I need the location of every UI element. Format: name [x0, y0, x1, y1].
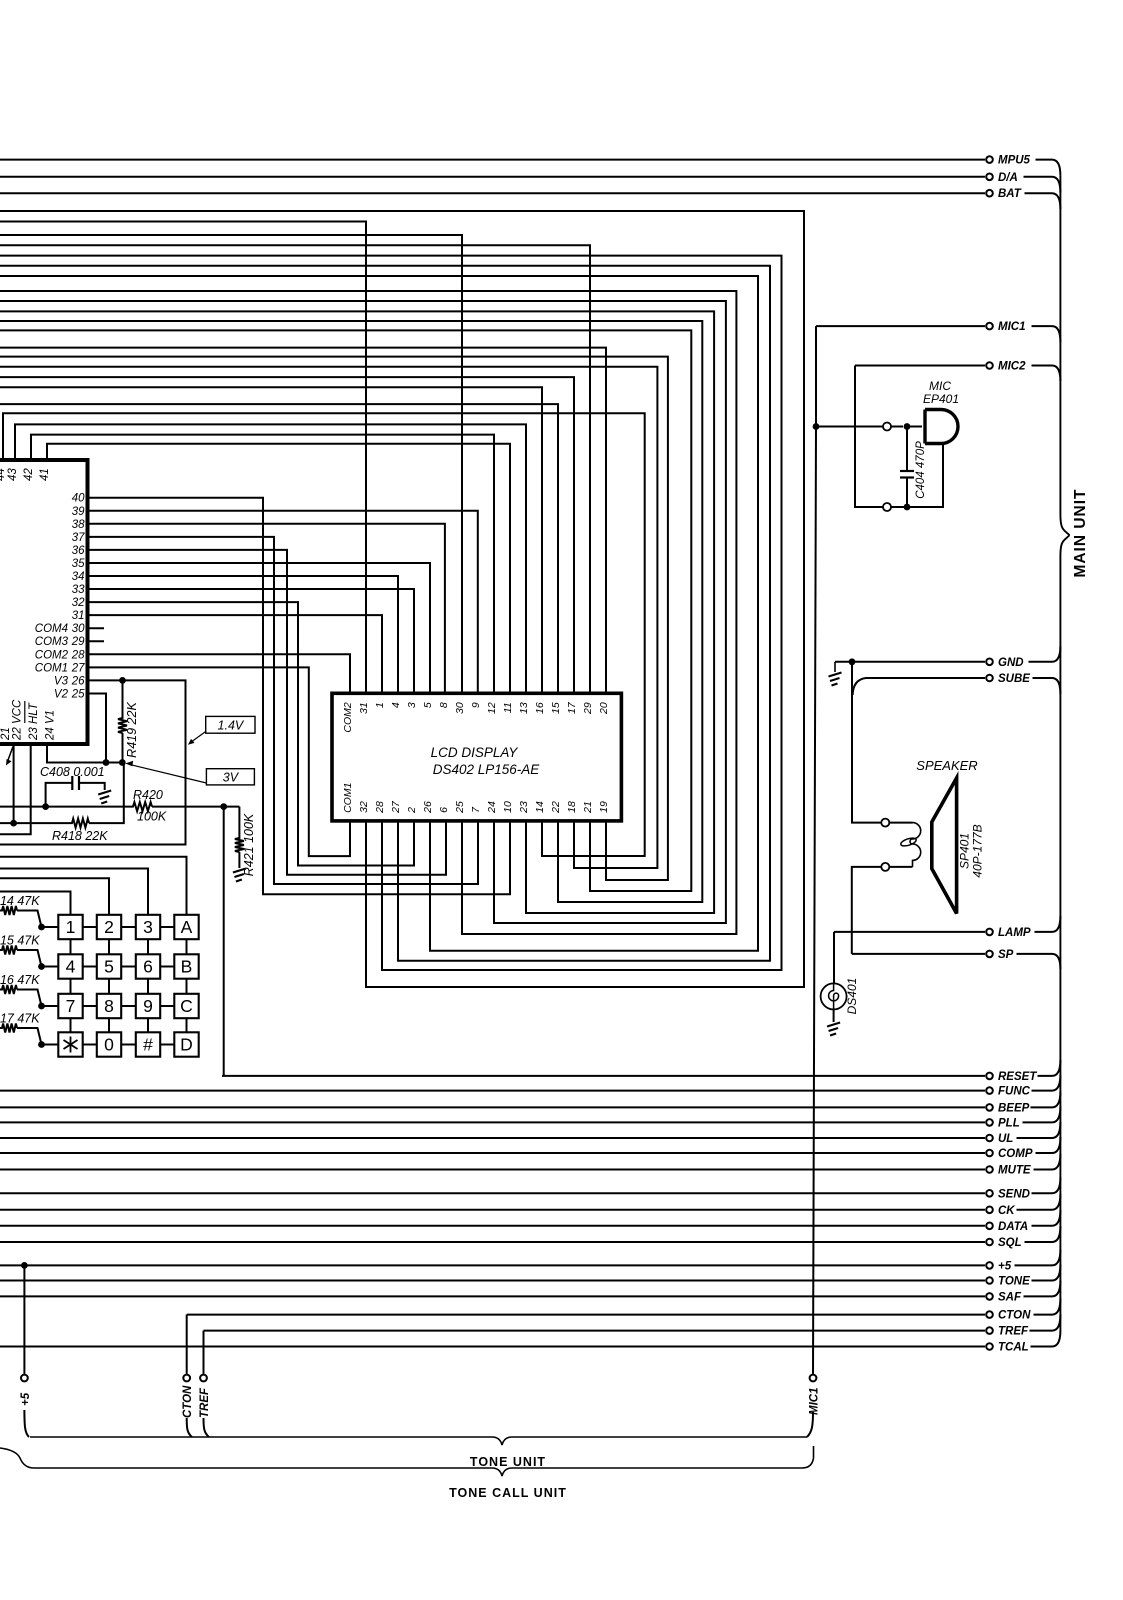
wire TONE to main-unit bus	[1032, 1265, 1061, 1281]
wire IC pin 34 to LCD top pin 4	[88, 576, 399, 693]
wire from left edge y=221.5 to LCD top pin col x=366	[0, 222, 366, 694]
wire DATA row	[0, 1225, 985, 1227]
svg-text:10: 10	[502, 801, 514, 813]
wire CTON row	[187, 1314, 985, 1316]
junction +5 row	[21, 1262, 28, 1269]
resistor R414 47K keypad row 1	[0, 906, 42, 927]
ground symbol GND row	[829, 673, 842, 686]
terminal GND	[986, 657, 1023, 669]
key 7	[58, 994, 82, 1018]
terminal CK	[986, 1205, 1015, 1217]
svg-text:37: 37	[72, 532, 85, 544]
svg-text:6: 6	[438, 807, 450, 813]
svg-text:32: 32	[72, 597, 85, 609]
wire CK row	[0, 1209, 985, 1211]
wire key row 2 between col 3 and 4	[160, 966, 174, 968]
svg-text:RESET: RESET	[998, 1071, 1037, 1083]
key A	[174, 915, 198, 939]
wire D/A from page left	[0, 176, 985, 178]
wire MPU5 to main-unit bus	[1036, 160, 1061, 176]
wire mic bottom row up to MIC element	[891, 444, 943, 507]
resistor R421 100K vertical	[235, 807, 244, 868]
connector circle mic bottom	[883, 503, 891, 511]
wire CK to main-unit bus	[1017, 1194, 1061, 1210]
junction R419 bottom node	[119, 759, 126, 766]
svg-text:DATA: DATA	[998, 1221, 1028, 1233]
svg-text:20: 20	[598, 702, 610, 715]
wire key col 3 between row 3 and 4	[147, 1018, 149, 1032]
svg-text:44: 44	[0, 468, 7, 481]
svg-text:12: 12	[486, 702, 498, 714]
wire IC pin 27 wrap left under LCD to bottom pin COM1	[88, 667, 351, 856]
svg-text:SP401: SP401	[958, 833, 972, 869]
svg-text:R414 47K: R414 47K	[0, 894, 40, 908]
wire DS401 to ground	[833, 1009, 835, 1022]
wire keypad column 1 to page left	[0, 892, 71, 915]
connector TREF bottom	[199, 1375, 211, 1418]
svg-text:1: 1	[66, 917, 76, 937]
wire CTON down to connector	[186, 1315, 188, 1374]
wire from left edge y=245.3 to LCD top pin col x=590	[0, 245, 590, 693]
key 6	[136, 954, 160, 978]
svg-text:FUNC: FUNC	[998, 1086, 1031, 1098]
junction C404 bottom	[904, 504, 911, 511]
svg-text:3: 3	[143, 917, 153, 937]
wire from left edge y=276.0 wrapping right of LCD to bottom pin col x=430	[0, 276, 758, 951]
ground below DS401	[827, 1023, 840, 1036]
terminal SUBE	[986, 673, 1030, 685]
svg-text:TONE UNIT: TONE UNIT	[470, 1455, 546, 1469]
svg-text:SAF: SAF	[998, 1291, 1022, 1303]
wire from left edge y=291.0 wrapping right of LCD to bottom pin col x=462	[0, 291, 736, 934]
wire speaker top to coil	[890, 822, 913, 824]
wire from left edge y=377.1 to LCD top pin col x=574	[0, 377, 574, 693]
wire from left edge y=387.2 to LCD top pin col x=542	[0, 387, 542, 693]
svg-text:R420: R420	[133, 788, 163, 802]
wire keypad column 4 to page left	[0, 857, 187, 915]
svg-text:PLL: PLL	[998, 1117, 1020, 1129]
wire MIC1 vertical continues to bottom connector	[813, 427, 816, 1374]
svg-text:TREF: TREF	[199, 1387, 211, 1418]
resistor R419 22K	[118, 680, 127, 762]
wire D/A to main-unit bus	[1024, 177, 1061, 193]
junction keypad row 2	[38, 963, 45, 970]
wire from left edge y=366.8 wrapping right of LCD to bottom pin col x=574	[0, 367, 657, 868]
svg-text:3V: 3V	[223, 771, 240, 785]
wire +5 down to connector	[23, 1265, 25, 1374]
svg-text:14: 14	[534, 801, 546, 813]
svg-text:36: 36	[72, 545, 85, 557]
terminal BEEP	[986, 1102, 1029, 1114]
wire RESET row	[222, 1075, 985, 1077]
wire mic top row	[816, 426, 903, 428]
wire DATA to main-unit bus	[1032, 1210, 1061, 1226]
wire LAMP down to lamp DS401	[833, 932, 835, 984]
wire TCAL to main-unit bus	[1031, 1331, 1061, 1347]
connector MIC1 bottom	[809, 1375, 821, 1415]
terminal MIC2	[986, 361, 1026, 373]
svg-text:5: 5	[422, 702, 434, 708]
svg-text:R419 22K: R419 22K	[125, 702, 139, 758]
wire key row 2 between col 1 and 2	[83, 966, 97, 968]
wire key row 1 between col 3 and 4	[160, 926, 174, 928]
wire from left edge y=211.0 wrapping right of LCD to bottom pin col x=366	[0, 211, 804, 987]
key *	[58, 1032, 82, 1056]
wire IC pin 33 to LCD top pin 3	[88, 589, 415, 693]
connector circle mic top	[883, 423, 891, 431]
svg-text:MIC1: MIC1	[998, 321, 1025, 333]
svg-text:21: 21	[0, 727, 12, 741]
junction VCC/R418	[10, 820, 17, 827]
svg-text:SUBE: SUBE	[998, 673, 1030, 685]
svg-text:C: C	[180, 996, 193, 1016]
svg-text:R416 47K: R416 47K	[0, 973, 40, 987]
wire +5 row	[0, 1264, 985, 1266]
junction keypad row 1	[38, 924, 45, 931]
wire key col 3 between row 2 and 3	[147, 979, 149, 994]
wire R421 node down to RESET row	[223, 807, 225, 1076]
svg-text:40: 40	[72, 493, 85, 505]
ground at GND row	[834, 662, 836, 672]
svg-text:MIC: MIC	[929, 379, 951, 393]
svg-text:MPU5: MPU5	[998, 155, 1031, 167]
wire IC pin 41 to LCD top pin 11	[47, 444, 510, 694]
svg-text:24 V1: 24 V1	[45, 710, 57, 741]
wire BEEP row	[0, 1106, 985, 1108]
wire key row 3 between col 2 and 3	[121, 1005, 136, 1007]
wire keypad row 3 to first key	[42, 1005, 59, 1007]
terminal SQL	[986, 1237, 1021, 1249]
svg-text:100K: 100K	[137, 810, 167, 824]
svg-text:LCD DISPLAY: LCD DISPLAY	[431, 745, 519, 760]
wire FUNC to main-unit bus	[1032, 1075, 1061, 1091]
wire SP row	[852, 953, 985, 955]
svg-text:SEND: SEND	[998, 1188, 1030, 1200]
svg-text:26: 26	[422, 801, 434, 814]
svg-text:22: 22	[550, 801, 562, 814]
wire MIC1 tail into tone unit bracket	[807, 1412, 813, 1437]
wire from left edge y=330.4 wrapping right of LCD to bottom pin col x=590	[0, 330, 691, 891]
wire IC pin 37 wrap left under LCD to bottom pin col 478	[88, 537, 479, 884]
resistor R415 47K keypad row 2	[0, 946, 42, 967]
svg-text:0: 0	[104, 1035, 114, 1055]
svg-text:MIC1: MIC1	[809, 1388, 821, 1415]
svg-text:23: 23	[518, 801, 530, 814]
svg-text:#: #	[143, 1035, 153, 1055]
wire key row 1 between col 2 and 3	[121, 926, 136, 928]
key #	[136, 1032, 160, 1056]
wire MIC2 to main-unit bus	[1032, 366, 1061, 382]
stub IC pin 29 COM3 (n.c.)	[88, 640, 105, 642]
microphone MIC EP401	[925, 410, 958, 444]
svg-text:+5: +5	[20, 1392, 32, 1406]
svg-text:11: 11	[502, 702, 514, 713]
svg-text:22 VCC: 22 VCC	[12, 699, 24, 741]
svg-text:41: 41	[39, 468, 51, 481]
junction C408/R420	[42, 803, 49, 810]
svg-text:29: 29	[582, 702, 594, 715]
wire SAF to main-unit bus	[1024, 1280, 1061, 1296]
wire from left edge y=301.0 wrapping right of LCD to bottom pin col x=494	[0, 301, 726, 923]
callout box 3V	[206, 769, 254, 785]
svg-text:COM2: COM2	[35, 649, 69, 661]
svg-text:9: 9	[470, 702, 482, 708]
svg-text:D: D	[180, 1035, 193, 1055]
junction keypad row 4	[38, 1041, 45, 1048]
svg-text:30: 30	[72, 623, 85, 635]
wire from left edge y=347.6 to LCD top pin col x=606	[0, 348, 606, 694]
svg-text:27: 27	[71, 662, 85, 674]
wire keypad row 2 to first key	[42, 966, 59, 968]
wire MPU5 from page left	[0, 159, 985, 161]
capacitor C408 0.001	[46, 776, 105, 807]
wire GND to main-unit bus	[1029, 646, 1061, 662]
svg-text:CTON: CTON	[182, 1385, 194, 1418]
svg-text:23 HLT: 23 HLT	[28, 702, 40, 741]
wire MIC1 row to terminal	[816, 325, 985, 327]
wire COMP row	[0, 1152, 985, 1154]
wire RESET to main-unit bus	[1038, 1060, 1061, 1076]
svg-text:33: 33	[72, 584, 85, 596]
svg-text:17: 17	[566, 701, 578, 714]
svg-text:24: 24	[486, 801, 498, 814]
svg-text:5: 5	[104, 957, 114, 977]
terminal SP	[986, 949, 1013, 961]
svg-text:38: 38	[72, 519, 85, 531]
svg-text:4: 4	[390, 702, 402, 708]
wire MUTE row	[0, 1169, 985, 1171]
wire key row 4 between col 1 and 2	[83, 1044, 97, 1046]
svg-text:V3: V3	[54, 675, 69, 687]
wire MIC2 row to terminal	[855, 365, 985, 367]
svg-text:COMP: COMP	[998, 1148, 1033, 1160]
wire key col 4 between row 1 and 2	[186, 939, 188, 954]
svg-text:4: 4	[66, 957, 76, 977]
wire key col 4 between row 2 and 3	[186, 979, 188, 994]
terminal +5	[986, 1260, 1012, 1272]
wire CTON tail into tone unit bracket	[187, 1418, 192, 1437]
svg-text:UL: UL	[998, 1133, 1013, 1145]
wire MIC1 to main-unit bus	[1032, 326, 1061, 342]
wire BAT to main-unit bus	[1025, 193, 1061, 209]
wire SUBE to main-unit bus	[1033, 678, 1061, 694]
wire from left edge y=404.1 to LCD top pin col x=558	[0, 404, 558, 693]
wire keypad column 2 to page left	[0, 878, 109, 915]
wire TREF row	[204, 1330, 986, 1332]
svg-text:C404 470P: C404 470P	[915, 441, 927, 499]
wire LAMP to main-unit bus	[1035, 916, 1061, 932]
wire IC pin 24 V1 down and right to node row	[47, 744, 122, 763]
svg-text:EP401: EP401	[923, 392, 959, 406]
wire key col 2 between row 2 and 3	[108, 979, 110, 994]
wire key row 4 between col 2 and 3	[121, 1044, 136, 1046]
terminal TONE	[986, 1276, 1030, 1288]
wire TREF to main-unit bus	[1030, 1315, 1061, 1331]
wire key col 1 between row 1 and 2	[70, 939, 72, 954]
svg-text:MUTE: MUTE	[998, 1165, 1031, 1177]
wire IC pin 36 wrap left under LCD to bottom pin col 446	[88, 550, 447, 875]
wire SUBE row joining ground/speaker line	[853, 678, 985, 695]
arrow from 1.4V box to V3 line	[191, 732, 206, 743]
svg-text:R418 22K: R418 22K	[52, 829, 108, 843]
arrow at IC pin 21	[8, 747, 14, 762]
wire PLL to main-unit bus	[1023, 1106, 1061, 1122]
wire IC pin 39 to LCD top pin 9	[88, 511, 478, 694]
terminal SEND	[986, 1188, 1030, 1200]
svg-text:A: A	[181, 917, 193, 937]
svg-text:R421 100K: R421 100K	[242, 813, 256, 876]
wire TREF tail into tone unit bracket	[204, 1418, 210, 1437]
svg-text:21: 21	[582, 801, 594, 814]
wire IC pin 25 V2 down to node row	[88, 694, 107, 763]
svg-text:2: 2	[406, 807, 418, 814]
terminal MIC1	[986, 321, 1025, 333]
overline on HLT	[24, 701, 26, 723]
key 4	[58, 954, 82, 978]
wire GND junction down to speaker top terminal	[852, 662, 881, 823]
key D	[174, 1032, 198, 1056]
terminal SAF	[986, 1291, 1022, 1303]
junction C404 top	[904, 423, 911, 430]
svg-text:13: 13	[518, 702, 530, 714]
svg-text:8: 8	[104, 996, 114, 1016]
wire GND row	[835, 661, 985, 663]
connector circle speaker bottom	[881, 863, 889, 871]
wire IC pin 28 to LCD top pin COM2	[88, 654, 351, 693]
wire SEND row	[0, 1192, 985, 1194]
key B	[174, 954, 198, 978]
svg-text:29: 29	[71, 636, 85, 648]
wire SQL to main-unit bus	[1025, 1226, 1061, 1242]
resistor R418 22K row from page left	[0, 763, 124, 828]
wire speaker bottom to coil	[890, 866, 913, 868]
svg-text:30: 30	[454, 702, 466, 714]
svg-text:40P-177B: 40P-177B	[971, 824, 985, 877]
svg-text:27: 27	[390, 800, 402, 814]
wire key row 1 between col 1 and 2	[83, 926, 97, 928]
wire LAMP row	[834, 931, 985, 933]
wire from left edge y=235.0 to LCD top pin col x=462	[0, 235, 462, 693]
svg-text:31: 31	[358, 702, 370, 714]
svg-text:COM2: COM2	[342, 702, 354, 732]
terminal MUTE	[986, 1165, 1031, 1177]
key 0	[97, 1032, 121, 1056]
junction R420/R421/RESET	[220, 803, 227, 810]
ground below R421	[233, 869, 246, 882]
wire CTON to main-unit bus	[1034, 1299, 1061, 1315]
wire mic top to MIC element	[907, 426, 922, 428]
wire SQL row	[0, 1241, 985, 1243]
wire UL to main-unit bus	[1017, 1122, 1061, 1138]
svg-text:6: 6	[143, 957, 153, 977]
wire UL row	[0, 1137, 985, 1139]
wire IC pin 26 V3 right then down then left to page edge	[0, 680, 186, 844]
ground below C408	[98, 791, 111, 804]
connector +5 bottom	[20, 1375, 32, 1406]
junction V2 on node row	[103, 759, 110, 766]
junction keypad row 3	[38, 1003, 45, 1010]
svg-text:SQL: SQL	[998, 1237, 1022, 1249]
svg-text:DS402 LP156-AE: DS402 LP156-AE	[433, 762, 541, 777]
LCD DISPLAY DS402 LP156-AE	[332, 693, 621, 821]
svg-text:GND: GND	[998, 657, 1024, 669]
wire key col 1 between row 3 and 4	[70, 1018, 72, 1032]
wire BAT from page left	[0, 192, 985, 194]
wire TONE row	[0, 1280, 985, 1282]
key 3	[136, 915, 160, 939]
wire +5 tail into tone unit bracket	[24, 1410, 29, 1437]
wire key col 2 between row 1 and 2	[108, 939, 110, 954]
svg-text:V2: V2	[54, 689, 69, 701]
wire IC pin 23 HLT down then left to page edge	[0, 744, 31, 834]
wire keypad row 1 to first key	[42, 926, 59, 928]
wire TREF down to connector	[203, 1331, 205, 1374]
svg-text:LAMP: LAMP	[998, 927, 1031, 939]
wire MUTE to main-unit bus	[1034, 1154, 1061, 1170]
terminal TCAL	[986, 1342, 1028, 1354]
junction MIC1/mic line	[813, 423, 820, 430]
terminal FUNC	[986, 1086, 1030, 1098]
wire key row 3 between col 1 and 2	[83, 1005, 97, 1007]
svg-text:TREF: TREF	[998, 1326, 1029, 1338]
svg-text:MAIN UNIT: MAIN UNIT	[1072, 488, 1089, 577]
wire key row 2 between col 2 and 3	[121, 966, 136, 968]
wire IC pin 40 wrap left under LCD to bottom pin col 510	[88, 498, 511, 895]
bracket TONE CALL UNIT	[0, 1446, 814, 1476]
wire from left edge y=321.0 wrapping right of LCD to bottom pin col x=558	[0, 321, 702, 902]
svg-text:DS401: DS401	[845, 978, 859, 1015]
svg-text:TONE: TONE	[998, 1276, 1030, 1288]
wire IC pin 42 to LCD top pin 12	[31, 435, 494, 694]
wire key col 3 between row 1 and 2	[147, 939, 149, 954]
svg-text:35: 35	[72, 558, 85, 570]
svg-text:9: 9	[143, 996, 153, 1016]
wire from left edge y=265.7 wrapping right of LCD to bottom pin col x=398	[0, 266, 770, 961]
main unit cable bus with brace	[1060, 176, 1070, 1331]
svg-text:SP: SP	[998, 949, 1014, 961]
svg-text:B: B	[181, 957, 193, 977]
svg-text:TCAL: TCAL	[998, 1342, 1029, 1354]
wire from left edge y=255.6 wrapping right of LCD to bottom pin col x=382	[0, 256, 782, 970]
key 1	[58, 915, 82, 939]
wire key col 2 between row 3 and 4	[108, 1018, 110, 1032]
svg-text:15: 15	[550, 702, 562, 714]
svg-text:CTON: CTON	[998, 1310, 1031, 1322]
stub IC pin 30 COM4 (n.c.)	[88, 627, 105, 629]
wire IC pin 35 to LCD top pin 5	[88, 563, 431, 693]
svg-text:7: 7	[66, 996, 76, 1016]
svg-text:2: 2	[104, 917, 114, 937]
terminal PLL	[986, 1117, 1020, 1129]
svg-text:28: 28	[71, 649, 85, 661]
key C	[174, 994, 198, 1018]
junction GND/speaker	[849, 658, 856, 665]
terminal MPU5	[986, 155, 1030, 167]
svg-text:1: 1	[374, 702, 386, 708]
connector CTON bottom	[182, 1375, 194, 1418]
lamp DS401	[821, 983, 847, 1009]
wire PLL row	[0, 1121, 985, 1123]
terminal LAMP	[986, 927, 1031, 939]
wire TCAL row	[0, 1346, 985, 1348]
wire IC pin 32 wrap left under LCD to bottom pin col 414	[88, 602, 415, 865]
bracket TONE UNIT	[30, 1437, 807, 1445]
wire key row 4 between col 3 and 4	[160, 1044, 174, 1046]
svg-text:COM3: COM3	[35, 636, 69, 648]
svg-text:26: 26	[71, 675, 85, 687]
speaker SP401 cone	[932, 778, 957, 914]
svg-text:3: 3	[406, 702, 418, 708]
